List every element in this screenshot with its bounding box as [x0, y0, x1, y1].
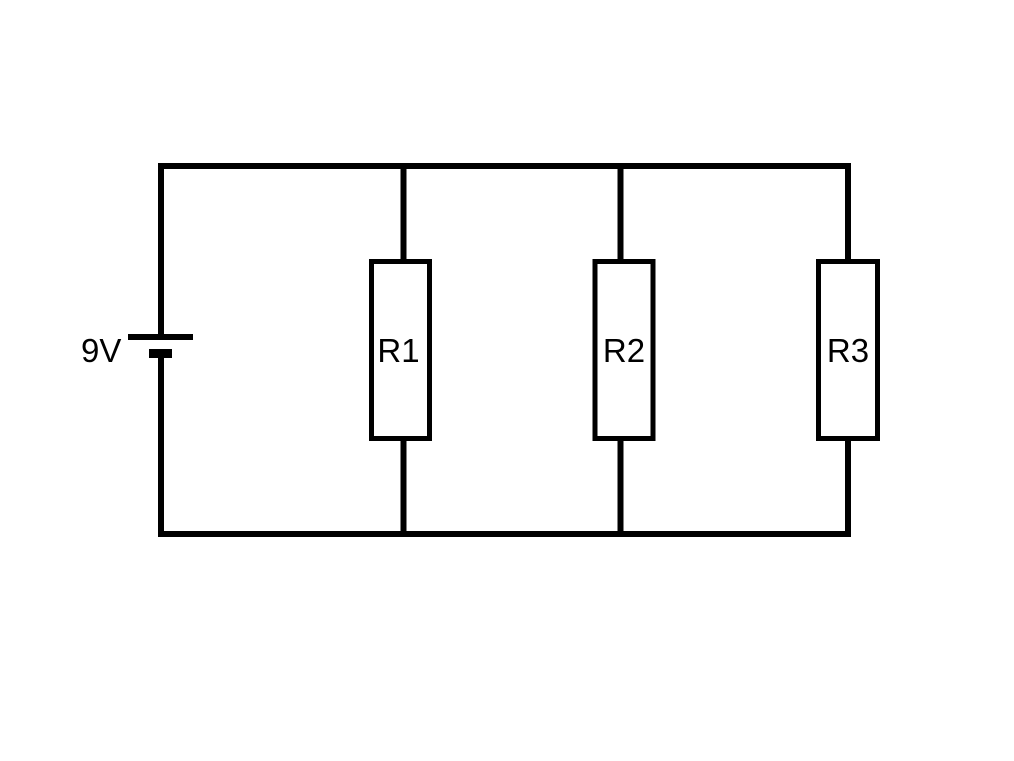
wire: bottom bus from battery - node to R3 branch — [158, 531, 851, 537]
wire: R3 branch top segment (right side, top bus to R3) — [845, 163, 851, 262]
battery B1: positive (long) plate — [128, 334, 193, 340]
svg-text:R3: R3 — [827, 332, 869, 369]
wire: R3 branch bottom segment (R3 to bottom bus) — [845, 438, 851, 537]
svg-text:R1: R1 — [377, 332, 419, 369]
wire: R2 branch bottom segment (R2 to bottom bus) — [618, 438, 624, 534]
svg-text:R2: R2 — [603, 332, 645, 369]
wire: R1 branch bottom segment (R1 to bottom bus) — [401, 438, 407, 534]
wire: left branch lower segment (battery - plate to bottom bus) — [158, 356, 164, 537]
battery B1: negative (short thick) plate — [149, 349, 172, 358]
wire: top bus from battery + node to R3 branch — [158, 163, 851, 169]
wire: left branch upper segment (top bus to battery + plate) — [158, 163, 164, 336]
resistor R3 body — [819, 262, 878, 439]
wire: R2 branch top segment (top bus to R2) — [618, 166, 624, 262]
resistor R2 body — [595, 262, 653, 439]
resistor R1 body — [372, 262, 430, 439]
svg-text:9V: 9V — [81, 332, 121, 369]
wire: R1 branch top segment (top bus to R1) — [401, 166, 407, 262]
